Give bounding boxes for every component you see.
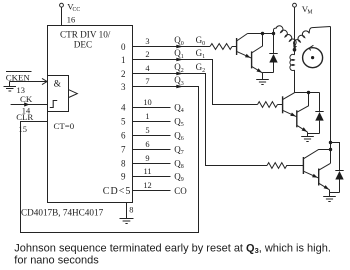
emitter arrow stage0 Q1a: [245, 54, 251, 58]
wire VM to star point: [294, 7, 296, 50]
svg-text:Q1: Q1: [174, 48, 184, 60]
motor winding L2 (to right bus / stage 2): [294, 27, 331, 50]
IC U1 CD4017B outline: [48, 26, 133, 203]
svg-text:Q4: Q4: [174, 103, 184, 115]
svg-text:CC: CC: [73, 7, 81, 13]
transistor stage0 Q1b (NPN): [252, 34, 263, 73]
svg-text:Johnson sequence terminated ea: Johnson sequence terminated early by res…: [14, 242, 331, 255]
svg-text:Q7: Q7: [174, 145, 184, 157]
wire stage1 emitter to ground and diode: [308, 132, 320, 136]
emitter arrow stage2 Q3b: [324, 185, 329, 189]
wire CO output (pin 12): [133, 190, 171, 192]
svg-text:CKEN: CKEN: [6, 72, 31, 82]
svg-text:9: 9: [145, 154, 149, 163]
pin 8 wire: [126, 203, 128, 220]
svg-text:3: 3: [121, 82, 126, 92]
ground stage 0: [256, 80, 269, 85]
node stage0 collector/Q1b: [261, 32, 264, 35]
svg-text:10: 10: [143, 98, 151, 107]
wire R to stage2 base: [286, 165, 303, 167]
svg-text:G2: G2: [196, 62, 206, 74]
arrow Q2: [176, 72, 183, 76]
resistor R (stage 0 base): [210, 44, 232, 50]
svg-text:Q0: Q0: [174, 35, 184, 47]
svg-text:CD<5: CD<5: [103, 186, 132, 197]
collector rail stage 0: [248, 33, 274, 35]
arrow Q0: [176, 45, 183, 49]
svg-text:1: 1: [145, 112, 149, 121]
wire Q9 output (pin 11): [133, 176, 171, 178]
VM terminal: [293, 3, 297, 7]
svg-text:0: 0: [121, 42, 126, 52]
svg-text:6: 6: [121, 130, 126, 140]
wire CK (pin 14): [11, 104, 48, 106]
svg-text:12: 12: [143, 181, 151, 190]
node star point: [293, 48, 297, 52]
emitter arrow stage1 Q2a: [290, 113, 296, 117]
svg-text:Q8: Q8: [174, 159, 184, 171]
wire Q8 output (pin 9): [133, 163, 171, 165]
motor winding L1 (to stage 0): [274, 26, 297, 50]
svg-text:CK: CK: [20, 94, 33, 104]
svg-text:CO: CO: [174, 186, 187, 196]
flyback diode stage 0: [269, 34, 277, 73]
wire Q2 output (pin 4) routed down: [133, 74, 268, 166]
svg-text:CTR DIV 10/: CTR DIV 10/: [60, 30, 111, 40]
svg-text:16: 16: [67, 16, 75, 25]
wire Q6 output (pin 5): [133, 135, 171, 137]
wire R to stage1 base: [278, 104, 283, 106]
internal clock output open arrow: [69, 90, 78, 98]
svg-text:CLR: CLR: [16, 112, 33, 122]
svg-text:2: 2: [145, 50, 149, 59]
svg-text:7: 7: [121, 144, 126, 154]
wire Vcc to pin 16: [61, 7, 63, 25]
svg-text:7: 7: [145, 77, 149, 86]
arrow Q3: [176, 85, 183, 89]
svg-text:8: 8: [121, 158, 126, 168]
emitter arrow stage0 Q1b: [257, 68, 263, 72]
right bus wire (L2 to stage 2 collector): [330, 27, 332, 164]
wire R to stage0 base: [232, 46, 237, 48]
wire Q7 output (pin 6): [133, 149, 171, 151]
svg-text:1: 1: [121, 55, 126, 65]
svg-text:CT=0: CT=0: [54, 121, 75, 131]
svg-text:M: M: [307, 10, 312, 16]
transistor stage0 Q1a (NPN): [237, 34, 252, 59]
svg-text:CD4017B, 74HC4017: CD4017B, 74HC4017: [21, 208, 104, 218]
ground on CKEN: [4, 82, 17, 92]
wire stage2 emitter to ground and diode: [330, 190, 340, 197]
svg-text:&: &: [54, 79, 62, 89]
svg-text:6: 6: [145, 140, 149, 149]
svg-text:5: 5: [121, 116, 126, 126]
transistor stage2 Q3a (NPN): [303, 150, 330, 179]
motor rotor symbol: [303, 48, 323, 68]
svg-text:5: 5: [145, 126, 149, 135]
wire CLR (pin 15) with feedback loop from Q3: [21, 87, 199, 233]
Vcc terminal: [60, 3, 64, 7]
rotation arrow: [309, 45, 313, 50]
arrow Q1: [176, 58, 183, 62]
node right bus to stage2 collector rail: [329, 148, 332, 151]
resistor R (stage 1 base): [258, 102, 278, 108]
svg-text:11: 11: [143, 167, 151, 176]
svg-text:DEC: DEC: [74, 40, 92, 50]
open arrowhead on CKEN input: [42, 78, 47, 84]
svg-text:9: 9: [121, 171, 126, 181]
svg-text:Q6: Q6: [174, 131, 184, 143]
transistor stage2 Q3b (NPN): [319, 163, 331, 190]
svg-text:4: 4: [121, 102, 126, 112]
flyback diode stage 1: [315, 93, 323, 134]
ground pin 8: [120, 219, 134, 224]
svg-text:Q9: Q9: [174, 172, 184, 184]
svg-text:Q3: Q3: [174, 75, 184, 87]
wire Q0 output (pin 3): [133, 46, 211, 48]
node stage0 diode/winding: [272, 32, 275, 35]
ground stage 2: [323, 197, 336, 202]
wire Q5 output (pin 1): [133, 121, 171, 123]
wire stage0 emitter to ground and diode: [263, 73, 274, 80]
svg-text:for nano seconds: for nano seconds: [14, 254, 99, 266]
svg-text:3: 3: [145, 37, 149, 46]
emitter arrow stage2 Q3a: [312, 174, 318, 178]
filled arrow on CK wire: [24, 102, 29, 106]
wire Q4 output (pin 10): [133, 107, 171, 109]
transistor stage1 Q2a (NPN): [283, 93, 297, 117]
transistor stage1 Q2b (NPN): [297, 93, 309, 133]
svg-text:2: 2: [121, 69, 126, 79]
svg-text:4: 4: [145, 64, 150, 73]
svg-text:Q2: Q2: [174, 62, 184, 74]
svg-text:Q5: Q5: [174, 117, 184, 129]
emitter arrow stage1 Q2b: [302, 127, 307, 132]
wire Q1 output (pin 2) routed down: [133, 60, 258, 105]
svg-text:8: 8: [129, 206, 133, 215]
motor winding L3 (to stage 1): [290, 50, 295, 93]
edge-trigger symbol on CK input: [50, 101, 57, 108]
wire CKEN (pin 13): [10, 81, 48, 83]
node stage1 collector: [307, 91, 310, 94]
ground stage 1: [301, 137, 314, 142]
flyback diode stage 2: [331, 143, 344, 193]
CKEN label with overline: [6, 71, 32, 73]
svg-text:15: 15: [19, 125, 27, 134]
collector rail stage 1: [295, 92, 320, 94]
clock control block (AND gate box): [48, 76, 69, 112]
svg-text:G1: G1: [196, 48, 206, 60]
resistor R (stage 2 base): [267, 163, 287, 169]
node right bus to diode stage 2: [329, 141, 332, 144]
svg-text:G0: G0: [196, 35, 206, 47]
